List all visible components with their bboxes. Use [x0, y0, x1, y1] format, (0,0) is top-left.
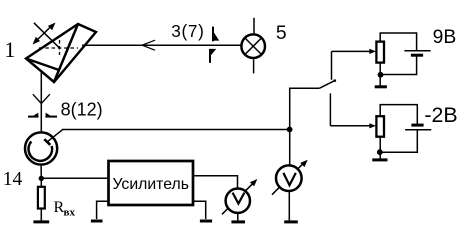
voltmeter PV2	[272, 160, 308, 195]
junction node phototube bottom	[39, 176, 44, 181]
junction node -2V	[377, 149, 383, 155]
resistor 9V bottom lead	[379, 63, 381, 86]
aperture mark right	[45, 113, 57, 118]
aperture mark lower	[210, 49, 216, 63]
svg-text:3(7): 3(7)	[171, 21, 204, 41]
svg-text:Усилитель: Усилитель	[112, 176, 189, 193]
arrow into -2V resistor	[369, 123, 376, 128]
beam wire	[82, 44, 241, 46]
junction node 9V	[378, 72, 384, 78]
battery 9V	[404, 51, 430, 56]
junction node	[287, 127, 293, 133]
switch lower contact	[329, 93, 331, 125]
voltmeter PV1	[222, 179, 257, 214]
svg-text:вх: вх	[64, 207, 76, 219]
svg-text:1: 1	[4, 37, 15, 62]
ground Rvx	[33, 220, 49, 223]
wire upper contact to 9V resistor	[332, 50, 371, 52]
phototube 14	[25, 129, 63, 178]
svg-text:-2В: -2В	[424, 103, 457, 127]
wire lower contact to -2V resistor	[330, 125, 370, 127]
dashed vertical center mark	[59, 40, 61, 55]
ground amp left	[91, 220, 103, 223]
wire prism to phototube	[40, 72, 42, 132]
prism internal edge	[26, 59, 59, 71]
resistor Rvx	[38, 179, 45, 222]
double-headed arrow	[33, 23, 56, 45]
down arrowhead	[33, 94, 50, 103]
ground PV2	[284, 220, 298, 223]
svg-text:5: 5	[276, 23, 287, 44]
arrow into 9V resistor	[369, 49, 376, 54]
anode wire to junction	[62, 129, 290, 131]
rotation axis line	[34, 23, 60, 48]
switch blade	[319, 81, 334, 89]
resistor -2V bottom lead	[379, 137, 381, 159]
svg-text:14: 14	[3, 169, 23, 190]
switch upper contact	[331, 51, 333, 79]
svg-text:9В: 9В	[433, 27, 457, 48]
svg-text:8(12): 8(12)	[61, 100, 103, 120]
amplifier left ground lead	[97, 201, 109, 219]
amplifier output wire	[193, 176, 238, 188]
wire -2V loop top	[380, 105, 417, 124]
aperture mark upper	[213, 27, 219, 42]
PV1 bottom lead	[237, 213, 239, 221]
resistor -2V	[376, 116, 384, 137]
dashed optical axis	[39, 47, 78, 49]
ground PV1	[231, 220, 245, 223]
wire junction to switch common	[290, 88, 320, 165]
PV2 bottom lead	[288, 191, 290, 221]
prism internal diagonal	[54, 24, 78, 82]
wire 9V loop top	[380, 33, 416, 50]
prism 1 outline	[26, 24, 96, 82]
amplifier box	[109, 161, 194, 205]
aperture mark left	[28, 113, 39, 118]
wire -2V loop bottom	[380, 130, 418, 152]
ground amp right	[200, 220, 212, 223]
beam arrowhead	[142, 40, 155, 50]
ground 9V	[375, 85, 387, 88]
resistor 9V	[376, 42, 384, 63]
battery -2V	[405, 125, 431, 130]
amplifier right ground lead	[193, 201, 206, 219]
lamp 5	[241, 18, 265, 74]
ground -2V	[372, 158, 387, 161]
wire 9V loop bottom	[381, 55, 417, 74]
wire to amplifier	[41, 177, 108, 179]
